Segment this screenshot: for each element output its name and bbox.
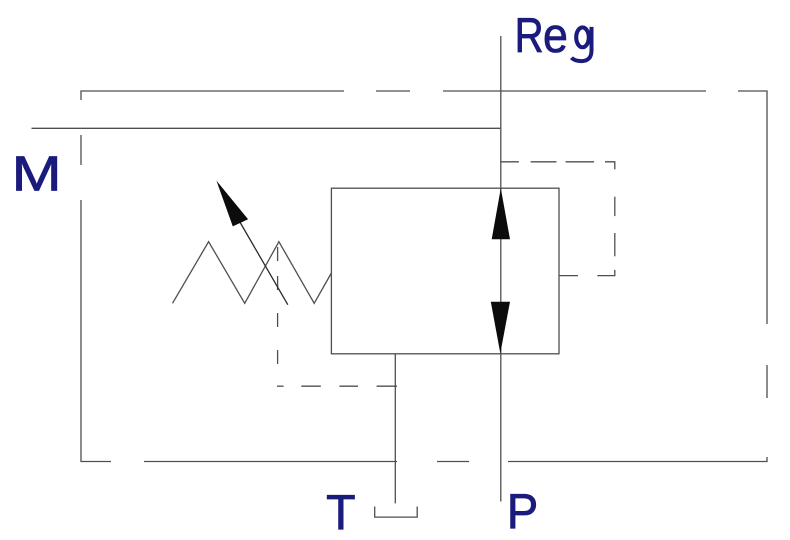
- wire Reg-P vertical line: [500, 36, 502, 502]
- pilot line right (pressure sense, dashed): [501, 162, 615, 276]
- wire T tank line: [394, 354, 396, 504]
- tank symbol: [375, 507, 418, 518]
- svg-text:R: R: [515, 8, 544, 63]
- port label Reg: [515, 8, 592, 63]
- svg-text:T: T: [326, 485, 356, 540]
- flow arrow up (inside valve): [492, 188, 510, 239]
- adjustment arrow (spring setting): [216, 181, 287, 305]
- wire M supply line: [32, 127, 502, 129]
- svg-text:P: P: [507, 484, 539, 539]
- enclosure dashed boundary (subplate outline): [81, 91, 767, 462]
- pilot line left (drain, dashed): [277, 247, 397, 386]
- spring: [173, 242, 332, 304]
- svg-text:M: M: [12, 146, 62, 201]
- svg-text:e: e: [543, 8, 568, 63]
- wire vertical line inside valve: [500, 188, 502, 354]
- flow arrow down (inside valve): [491, 302, 510, 354]
- valve body U1: [331, 188, 559, 354]
